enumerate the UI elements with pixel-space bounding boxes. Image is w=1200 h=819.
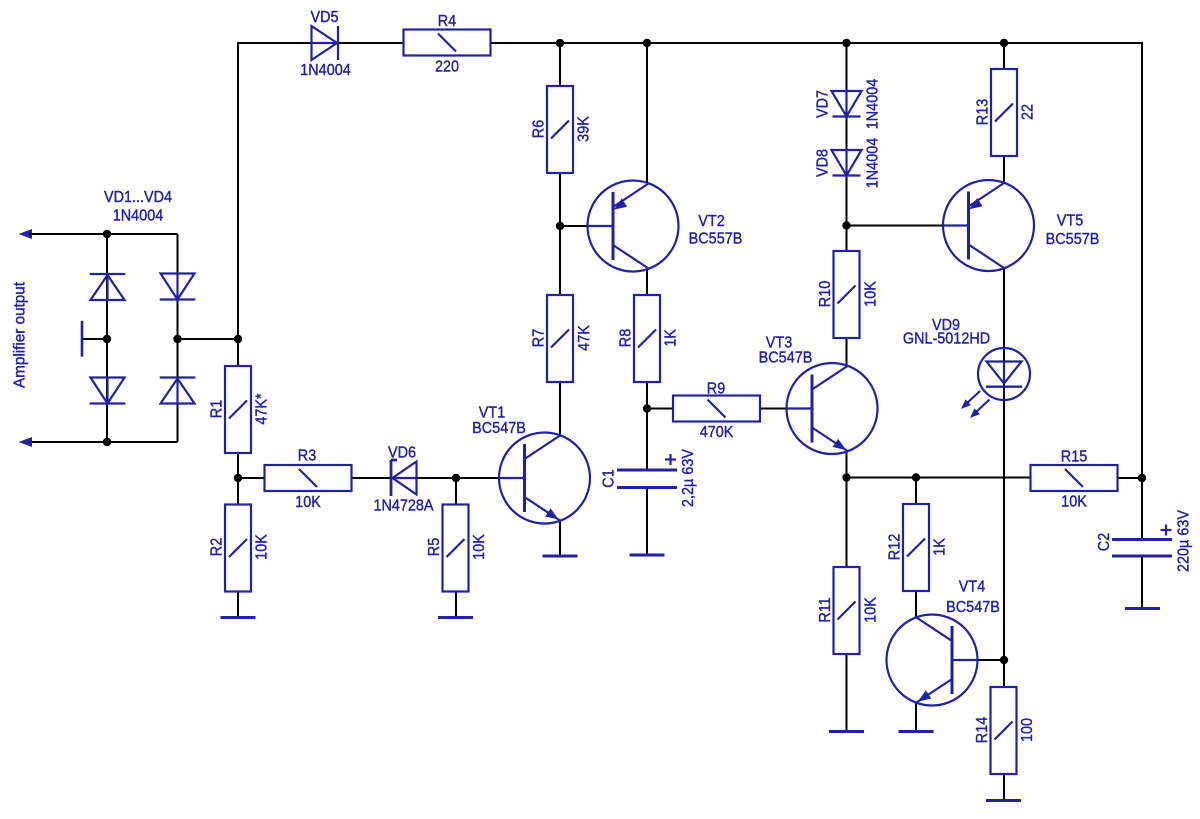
svg-text:GNL-5012HD: GNL-5012HD (903, 330, 990, 348)
svg-text:VT4: VT4 (959, 578, 986, 596)
svg-text:1K: 1K (931, 538, 949, 556)
svg-text:VD7: VD7 (814, 90, 832, 118)
svg-text:1N4004: 1N4004 (113, 207, 164, 225)
svg-text:R2: R2 (208, 538, 226, 556)
svg-text:47K: 47K (575, 325, 593, 351)
svg-text:C1: C1 (600, 469, 618, 487)
svg-text:VD6: VD6 (388, 444, 416, 462)
svg-text:R5: R5 (425, 538, 443, 556)
svg-text:BC557B: BC557B (1046, 230, 1100, 248)
svg-text:10K: 10K (295, 493, 321, 511)
svg-text:1N4728A: 1N4728A (373, 497, 434, 515)
svg-text:C2: C2 (1095, 533, 1113, 551)
svg-text:1N4004: 1N4004 (864, 78, 882, 129)
svg-text:10K: 10K (862, 597, 880, 623)
svg-text:10K: 10K (470, 534, 488, 560)
svg-text:47K*: 47K* (253, 393, 271, 424)
svg-text:Amplifier output: Amplifier output (11, 281, 28, 388)
svg-text:10K: 10K (253, 534, 271, 560)
svg-text:R3: R3 (298, 447, 316, 465)
svg-text:R1: R1 (208, 400, 226, 418)
svg-text:BC547B: BC547B (946, 598, 1000, 616)
svg-text:R11: R11 (816, 597, 834, 622)
svg-text:VD1...VD4: VD1...VD4 (104, 188, 173, 206)
svg-text:220µ 63V: 220µ 63V (1175, 509, 1193, 572)
svg-text:1N4004: 1N4004 (864, 137, 882, 188)
svg-text:R10: R10 (816, 281, 834, 307)
svg-text:VD5: VD5 (310, 8, 338, 26)
svg-text:VD8: VD8 (814, 149, 832, 177)
svg-text:BC547B: BC547B (472, 419, 526, 437)
svg-text:R15: R15 (1061, 448, 1087, 466)
svg-text:R4: R4 (438, 12, 457, 30)
svg-text:1K: 1K (662, 329, 680, 347)
svg-text:220: 220 (435, 58, 459, 76)
svg-text:39K: 39K (575, 116, 593, 142)
svg-text:R9: R9 (707, 380, 725, 398)
svg-text:22: 22 (1019, 104, 1037, 120)
svg-text:BC557B: BC557B (689, 230, 743, 248)
svg-text:10K: 10K (862, 281, 880, 307)
svg-text:R6: R6 (530, 120, 548, 138)
svg-text:VT2: VT2 (698, 212, 724, 230)
svg-text:10K: 10K (1061, 493, 1087, 511)
svg-text:2,2µ 63V: 2,2µ 63V (679, 448, 697, 507)
svg-text:100: 100 (1018, 718, 1036, 742)
svg-text:R13: R13 (974, 99, 992, 125)
svg-text:R8: R8 (617, 329, 635, 347)
svg-text:R7: R7 (530, 329, 548, 347)
svg-text:470K: 470K (700, 423, 734, 441)
svg-text:BC547B: BC547B (759, 349, 813, 367)
svg-text:R14: R14 (973, 716, 991, 743)
svg-text:R12: R12 (886, 534, 904, 560)
svg-text:VT5: VT5 (1057, 212, 1083, 230)
svg-text:1N4004: 1N4004 (300, 61, 351, 79)
